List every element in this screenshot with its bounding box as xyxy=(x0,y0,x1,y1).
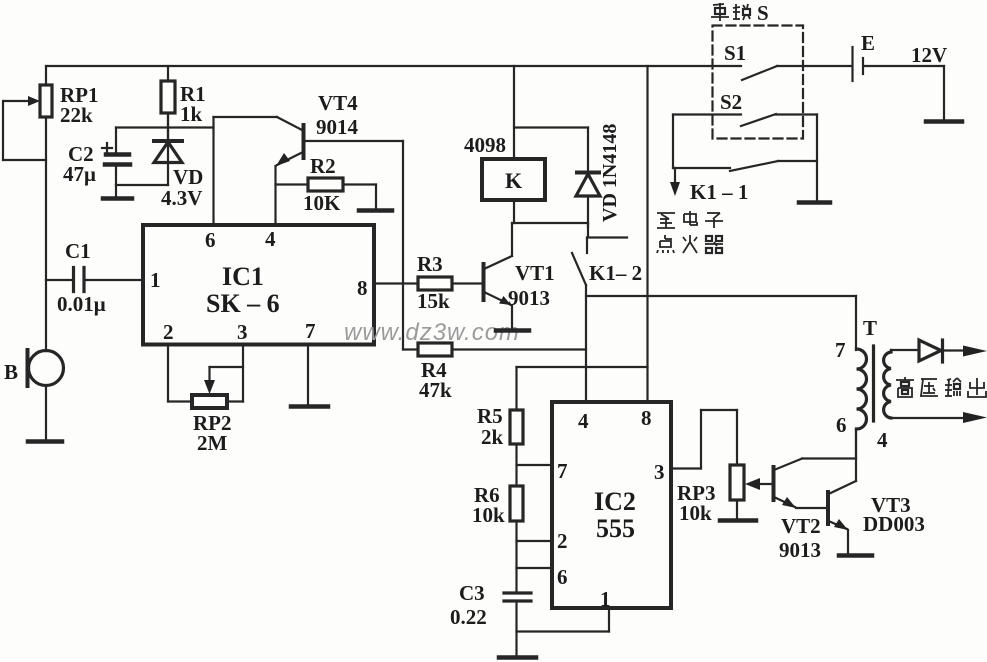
capacitor C2 47u xyxy=(63,128,130,187)
svg-text:6: 6 xyxy=(836,413,847,437)
svg-text:1: 1 xyxy=(600,587,611,611)
ground below VT3 xyxy=(839,553,872,558)
svg-text:6: 6 xyxy=(557,565,568,589)
wire: VCC to R5 top xyxy=(517,367,648,410)
svg-text:10k: 10k xyxy=(679,501,712,525)
wire: collector riser to transformer xyxy=(855,429,857,481)
wire: R5 bottom to R6 top xyxy=(515,444,517,486)
relay coil K (4098) xyxy=(464,66,545,223)
ground below R2 xyxy=(359,208,392,213)
wire: switched supply to transformer primary xyxy=(586,295,856,297)
ground below RP3 xyxy=(720,518,756,523)
microphone B xyxy=(4,350,64,440)
capacitor C1 0.01u xyxy=(46,239,143,316)
wire: C2 top / zener node xyxy=(116,126,214,128)
svg-text:4.3V: 4.3V xyxy=(161,186,202,210)
svg-text:2: 2 xyxy=(163,320,174,344)
dashed box: car lock S xyxy=(713,26,804,139)
svg-text:S: S xyxy=(757,1,769,25)
svg-text:10k: 10k xyxy=(472,503,505,527)
svg-text:1: 1 xyxy=(150,268,161,292)
IC U1: IC1 SK-6 xyxy=(143,225,374,345)
transformer T xyxy=(835,296,963,459)
IC U2: IC2 555 xyxy=(552,402,671,611)
switch K1-1 xyxy=(673,161,817,204)
svg-text:VT1: VT1 xyxy=(515,261,555,285)
wire: IC2 pin 1 bottom return xyxy=(517,608,610,632)
svg-text:DD003: DD003 xyxy=(863,512,925,536)
label: zhi dian zi (to electronic) xyxy=(657,211,723,228)
wire: K1-2 bottom node down to IC2 pin 4 xyxy=(585,285,587,402)
resistor R1 1k xyxy=(161,66,206,139)
svg-text:3: 3 xyxy=(654,460,665,484)
label: gao ya shu chu (HV output) xyxy=(896,377,986,397)
ground below B xyxy=(28,439,62,444)
svg-text:4: 4 xyxy=(578,409,589,433)
svg-text:4098: 4098 xyxy=(464,133,506,157)
zener diode VD 4.3V xyxy=(154,113,203,210)
wire: VT2 emitter to VT3 base xyxy=(796,507,827,509)
wire: C2/VD bottom tie xyxy=(116,184,168,186)
svg-text:9013: 9013 xyxy=(508,286,550,310)
svg-text:7: 7 xyxy=(557,459,568,483)
wire: VT4 base to R4/pin8 node xyxy=(402,141,404,350)
svg-text:3: 3 xyxy=(237,320,248,344)
wire: S2/K1-1 right leg to ground xyxy=(799,115,830,203)
svg-text:E: E xyxy=(861,31,875,55)
svg-text:8: 8 xyxy=(641,406,652,430)
svg-text:VT4: VT4 xyxy=(318,91,358,115)
potentiometer RP1 22k xyxy=(3,66,99,160)
svg-text:2M: 2M xyxy=(197,431,228,455)
transistor VT1 9013 xyxy=(484,223,555,329)
svg-text:0.01μ: 0.01μ xyxy=(57,292,106,316)
wire: IC1 pin 8 out xyxy=(374,282,418,284)
wire: S2 left drop xyxy=(672,115,674,169)
wire: IC2 pin 3 to RP3 xyxy=(671,410,737,469)
wire: top supply rail xyxy=(46,65,741,67)
svg-text:1k: 1k xyxy=(180,102,203,126)
transistor VT2 9013 xyxy=(774,459,822,563)
svg-text:4: 4 xyxy=(265,227,276,251)
label: che suo S (car lock S) xyxy=(711,3,750,21)
svg-text:6: 6 xyxy=(205,228,216,252)
svg-text:8: 8 xyxy=(357,276,368,300)
wire: K bottom / diode bottom tie xyxy=(512,222,588,224)
wire: IC2 pin 6 xyxy=(517,567,553,569)
capacitor C3 0.22 xyxy=(450,581,531,656)
resistor R2 10K xyxy=(276,154,377,215)
svg-text:22k: 22k xyxy=(60,103,93,127)
wire: VCC riser to IC2 pin 8 xyxy=(646,66,648,402)
wire: IC2 pin 2 xyxy=(517,540,553,542)
svg-text:K1 – 1: K1 – 1 xyxy=(690,180,748,204)
svg-text:9013: 9013 xyxy=(779,538,821,562)
svg-text:K1– 2: K1– 2 xyxy=(589,261,642,285)
svg-text:C1: C1 xyxy=(65,239,91,263)
diode: HV output xyxy=(919,340,964,362)
svg-text:IC1: IC1 xyxy=(222,262,264,291)
arrow: output top xyxy=(963,346,987,357)
resistor R4 47k xyxy=(403,343,586,402)
svg-text:T: T xyxy=(863,316,877,340)
ground below VT1 xyxy=(496,328,529,333)
svg-text:47μ: 47μ xyxy=(63,162,96,186)
arrow: to electronic igniter xyxy=(670,168,680,196)
wire: IC1 pin 2 to RP2 xyxy=(168,345,192,402)
resistor R5 2k xyxy=(477,404,523,449)
potentiometer RP2 2M xyxy=(192,345,243,456)
svg-text:C3: C3 xyxy=(459,581,485,605)
label: dian huo qi (igniter) xyxy=(657,235,723,253)
wire: riser to IC1 pin 6 xyxy=(212,117,214,225)
transistor VT4 9014 xyxy=(214,91,404,225)
svg-text:47k: 47k xyxy=(419,378,452,402)
svg-text:R2: R2 xyxy=(310,154,336,178)
svg-text:4: 4 xyxy=(877,428,888,452)
wire: K top to diode top xyxy=(514,126,588,128)
diode VD 1N4148 xyxy=(576,124,621,227)
arrow: output bottom xyxy=(963,412,987,423)
wire: IC2 pin 7 xyxy=(517,464,553,466)
svg-text:B: B xyxy=(4,360,18,384)
svg-text:S2: S2 xyxy=(720,90,742,114)
switch S2 xyxy=(673,90,817,126)
wire: R6 bottom to C3 xyxy=(515,521,517,592)
svg-text:S1: S1 xyxy=(724,41,746,65)
svg-text:2: 2 xyxy=(557,529,568,553)
svg-text:0.22: 0.22 xyxy=(450,605,487,629)
battery E 12V xyxy=(777,31,947,81)
switch K1-2 xyxy=(572,223,642,285)
ground below C3 xyxy=(499,655,536,660)
svg-text:10K: 10K xyxy=(303,191,341,215)
switch S1 xyxy=(724,41,777,80)
ground below IC1 pin 7 xyxy=(291,345,328,407)
wire: VT2 collector xyxy=(802,457,856,459)
RP3 wiper arrow from VT2 base xyxy=(745,478,773,490)
resistor R3 15k xyxy=(417,252,482,313)
svg-text:R3: R3 xyxy=(417,252,443,276)
svg-text:SK – 6: SK – 6 xyxy=(206,289,280,318)
svg-text:7: 7 xyxy=(835,338,846,362)
svg-text:VT2: VT2 xyxy=(781,514,821,538)
svg-text:9014: 9014 xyxy=(316,115,359,139)
svg-text:K: K xyxy=(505,168,522,193)
transistor VT3 DD003 xyxy=(828,481,925,554)
svg-text:7: 7 xyxy=(305,319,316,343)
ground at battery negative xyxy=(926,66,962,122)
svg-text:12V: 12V xyxy=(911,43,947,67)
ground below C2 xyxy=(103,185,132,199)
svg-text:IC2: IC2 xyxy=(594,487,636,516)
resistor R6 10k xyxy=(472,483,523,527)
svg-text:2k: 2k xyxy=(481,425,504,449)
potentiometer RP3 10k xyxy=(677,465,744,525)
svg-text:15k: 15k xyxy=(417,289,450,313)
wire: RP1 bottom to node A (C1/mic column) xyxy=(45,117,47,351)
svg-text:VD 1N4148: VD 1N4148 xyxy=(599,124,621,222)
svg-text:555: 555 xyxy=(596,514,635,543)
